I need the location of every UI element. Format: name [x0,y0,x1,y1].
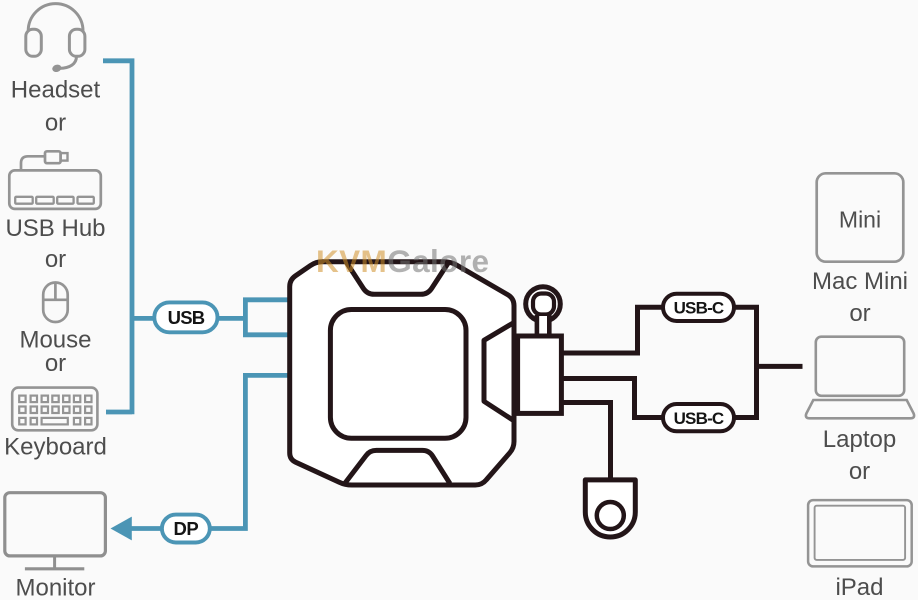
svg-text:KVMGalore: KVMGalore [316,243,489,279]
svg-text:USB-C: USB-C [674,299,724,318]
svg-text:Mini: Mini [839,207,881,233]
svg-text:Laptop: Laptop [823,426,896,453]
selector button circle [597,502,624,529]
black wire: top pill to merge [734,307,757,366]
connector key ring outer [526,287,561,322]
svg-text:or: or [849,458,870,485]
svg-text:or: or [45,350,66,377]
teal wire: USB branch right + fork to device [218,300,291,335]
ipad icon [808,500,912,566]
monitor icon [5,493,106,569]
arrowhead to monitor [111,517,132,541]
connector key ring hole [533,294,554,315]
svg-text:USB: USB [168,307,205,328]
mac mini icon [817,173,904,261]
ring neck [537,316,549,336]
svg-text:Keyboard: Keyboard [4,434,107,461]
KVM switch device body fill (under watermark) [290,262,514,485]
svg-text:or: or [45,246,66,273]
KVM switch device: outer octagon outline [290,262,514,485]
svg-text:DP: DP [174,518,199,539]
black wire: box to remote selector [562,403,611,481]
remote port selector [585,480,635,537]
black wire: box to top USB-C pill [562,307,664,353]
laptop icon [806,337,914,419]
svg-text:or: or [45,109,66,136]
svg-text:or: or [849,300,870,327]
teal wire: headset/keyboard trunk [103,58,132,414]
teal wire: DP run from device down to monitor [130,375,290,528]
USB pill [154,302,217,332]
device top notch [346,262,449,295]
svg-text:iPad: iPad [835,574,883,600]
usb hub icon [9,151,101,209]
USB-C pill bottom [663,404,734,431]
keyboard icon [12,388,97,431]
svg-text:USB Hub: USB Hub [5,215,105,242]
headset icon [26,4,85,74]
black wire: bottom pill to merge [734,366,757,417]
svg-text:Mac Mini: Mac Mini [812,268,908,295]
black wire: box to bottom USB-C pill [562,379,664,418]
device bottom notch [345,450,450,483]
connector box [518,336,562,413]
DP pill [162,515,210,543]
svg-text:USB-C: USB-C [674,409,724,428]
device cable gland (nose) [484,323,514,421]
teal wire: USB branch left [132,316,155,321]
USB-C pill top [663,294,734,321]
svg-text:Monitor: Monitor [15,575,95,600]
device screen [330,310,466,439]
black wire: merge to laptop [754,364,803,369]
svg-text:Headset: Headset [11,76,101,103]
mouse icon [43,283,67,323]
